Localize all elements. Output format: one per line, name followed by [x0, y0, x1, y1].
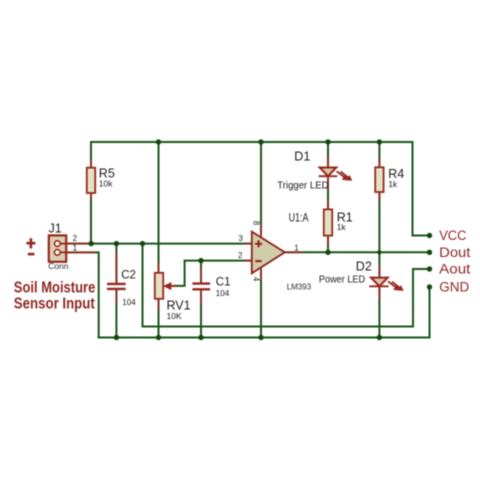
svg-text:104: 104: [216, 289, 230, 298]
node junction R4 top rail: [377, 139, 382, 144]
wire VCC drop right: [413, 142, 430, 236]
node junction Aout tap: [140, 241, 145, 246]
svg-text:C2: C2: [121, 269, 136, 281]
node junction op-amp power rail: [258, 139, 263, 144]
node junction op-amp ground: [258, 335, 263, 340]
svg-text:C1: C1: [216, 276, 231, 288]
svg-text:J1: J1: [49, 222, 62, 236]
node junction R4 D2 output: [377, 250, 381, 254]
plus probe mark: [26, 238, 35, 248]
resistor R5: [87, 160, 115, 200]
wire sensor line to op-amp pin 3: [60, 243, 252, 245]
svg-text:Dout: Dout: [439, 245, 470, 260]
wire C1 vertical: [200, 261, 202, 282]
svg-text:D2: D2: [356, 260, 372, 274]
wire R4 D2 branch: [378, 142, 380, 338]
capacitor C1: [192, 268, 230, 304]
capacitor C2: [107, 252, 136, 307]
LED D2: [319, 260, 404, 300]
svg-text:D1: D1: [294, 149, 310, 163]
wire bottom ground rail: [99, 287, 430, 338]
wire inverting input to wiper and C1: [166, 261, 252, 286]
svg-text:1k: 1k: [337, 222, 347, 232]
svg-text:Conn: Conn: [48, 261, 69, 271]
wire op-amp pin4 ground: [260, 271, 262, 338]
svg-text:2: 2: [73, 234, 78, 243]
minus probe mark: [28, 253, 35, 256]
svg-text:104: 104: [122, 298, 136, 307]
svg-text:Soil Moisture: Soil Moisture: [14, 279, 96, 296]
svg-text:10k: 10k: [99, 178, 113, 188]
svg-text:1: 1: [73, 243, 78, 252]
node junction C2 ground: [114, 335, 119, 340]
svg-text:4: 4: [252, 277, 261, 282]
svg-text:3: 3: [239, 234, 244, 243]
connector J1: [48, 222, 95, 272]
node junction D2 ground: [377, 335, 382, 340]
node junction R5 sensor line: [89, 241, 94, 246]
potentiometer RV1: [155, 263, 191, 321]
node junction D1 top rail: [325, 139, 330, 144]
svg-text:Trigger LED: Trigger LED: [277, 180, 329, 192]
op-amp U1: [238, 213, 312, 292]
node junction C1 wiper line: [198, 258, 203, 263]
wire R5 branch vertical: [90, 142, 92, 244]
svg-text:10K: 10K: [167, 311, 182, 321]
svg-text:U1:A: U1:A: [289, 213, 309, 225]
svg-text:Sensor Input: Sensor Input: [14, 295, 95, 312]
svg-text:VCC: VCC: [439, 228, 467, 243]
resistor R1: [324, 200, 353, 245]
wire output to Dout: [286, 251, 430, 253]
LED D1: [277, 149, 352, 191]
node terminal VCC: [427, 233, 432, 238]
wire J1 pin1 to ground: [60, 252, 99, 337]
node junction R1 output: [325, 250, 330, 255]
wire D1 R1 branch: [327, 142, 329, 252]
svg-text:Aout: Aout: [439, 262, 470, 277]
node terminal Dout: [427, 250, 432, 255]
node junction RV1 ground: [156, 335, 161, 340]
svg-text:8: 8: [252, 221, 261, 226]
node terminal GND: [427, 284, 432, 289]
wire Aout path: [143, 244, 430, 327]
node junction RV1 top rail: [156, 139, 161, 144]
svg-text:1: 1: [294, 243, 299, 252]
svg-text:Power LED: Power LED: [319, 273, 366, 285]
node terminal Aout: [427, 266, 432, 271]
node junction C1 ground: [198, 335, 203, 340]
resistor R4: [375, 158, 404, 200]
node junction C2 sensor line: [114, 241, 119, 246]
svg-text:1k: 1k: [388, 179, 398, 189]
wire top VCC rail: [91, 141, 413, 143]
svg-text:2: 2: [238, 251, 243, 260]
svg-text:GND: GND: [439, 280, 469, 295]
svg-text:LM393: LM393: [287, 282, 312, 291]
wire RV1 branch vertical: [158, 142, 160, 338]
wire op-amp pin8 power: [260, 142, 262, 234]
wire C2 vertical: [115, 244, 117, 283]
